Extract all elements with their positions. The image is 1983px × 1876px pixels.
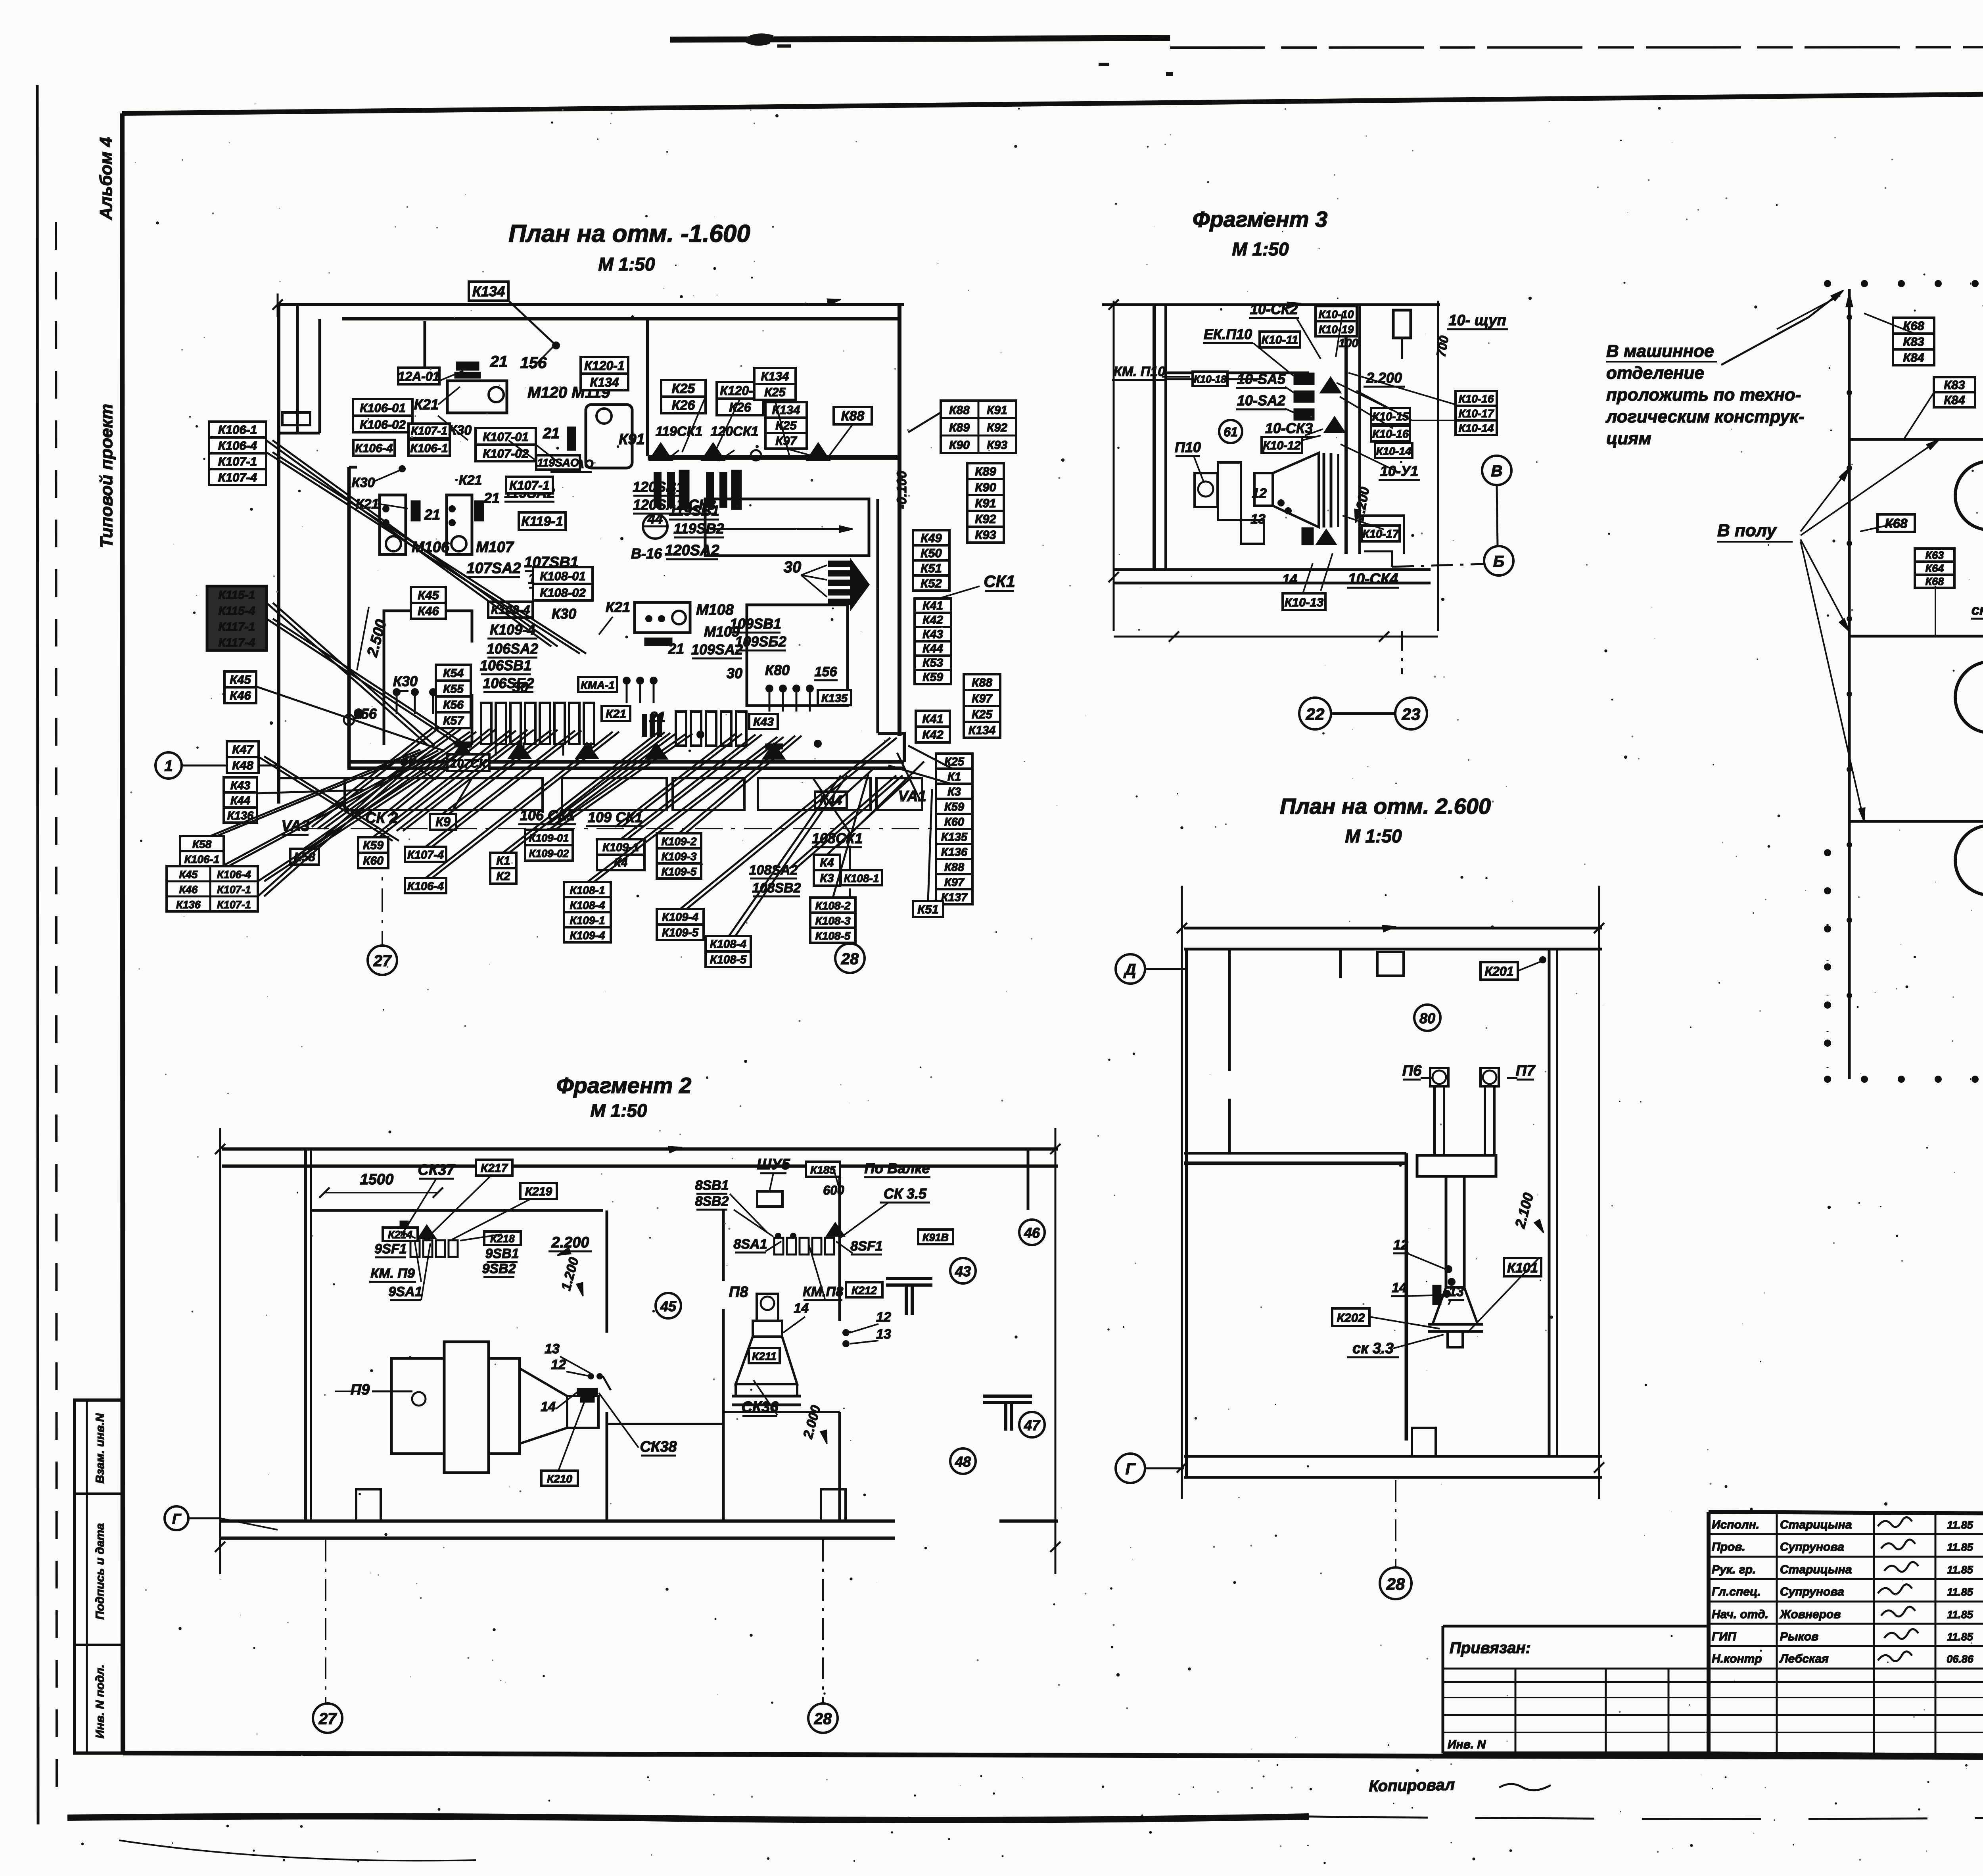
label К120-1/К134: [581, 357, 628, 390]
fragment 2 machine P9: [391, 1342, 598, 1473]
svg-text:Взам. инв.N: Взам. инв.N: [94, 1413, 107, 1483]
plan 0.000 cable tree: [1846, 289, 1983, 1079]
label 109 СК1: [586, 809, 644, 826]
label 2.200: [548, 1234, 592, 1251]
svg-text:Фрагмент 3: Фрагмент 3: [1193, 207, 1327, 232]
outer sheet border top: [670, 38, 1170, 40]
svg-text:П8: П8: [729, 1284, 748, 1301]
svg-text:12: 12: [551, 1357, 566, 1372]
label 10-СК3: [1264, 420, 1314, 437]
fragment 3 leader lines: [1162, 313, 1483, 529]
svg-text:21: 21: [424, 506, 440, 523]
svg-text:Пров.: Пров.: [1712, 1540, 1745, 1554]
svg-text:9SA1: 9SA1: [388, 1284, 422, 1299]
label 10- щуп: [1447, 312, 1508, 329]
label К44: [815, 792, 847, 808]
svg-text:28: 28: [841, 950, 859, 968]
svg-text:14: 14: [541, 1399, 556, 1414]
svg-text:К210: К210: [547, 1473, 572, 1485]
svg-text:8SF1: 8SF1: [850, 1239, 882, 1254]
svg-text:К120-1: К120-1: [584, 359, 625, 373]
label К109-4: [487, 621, 537, 639]
svg-text:К10-12: К10-12: [1263, 439, 1300, 452]
label К185: [806, 1162, 840, 1177]
svg-text:1: 1: [164, 758, 173, 775]
label КМ. П10: [1112, 364, 1167, 380]
label К202: [1332, 1308, 1369, 1326]
svg-text:47: 47: [1024, 1417, 1041, 1433]
svg-text:К108-5: К108-5: [710, 953, 747, 966]
svg-text:К54: К54: [443, 667, 464, 680]
svg-text:К83: К83: [1903, 335, 1924, 349]
svg-text:Старицына: Старицына: [1780, 1518, 1852, 1531]
svg-text:120SA2: 120SA2: [665, 542, 719, 559]
svg-text:30: 30: [784, 558, 802, 576]
label 109SA2: [691, 641, 743, 658]
svg-text:К42: К42: [922, 728, 944, 742]
dot clusters: [344, 677, 822, 748]
label 12: [1393, 1237, 1409, 1253]
svg-text:К10-17: К10-17: [1362, 528, 1400, 541]
svg-text:К68: К68: [1925, 575, 1944, 587]
axis circle 48: [950, 1448, 976, 1474]
svg-text:К51: К51: [917, 902, 939, 916]
svg-text:Лебская: Лебская: [1779, 1652, 1829, 1665]
label 2.200: [1364, 370, 1405, 387]
label КМА-1: [578, 677, 617, 692]
svg-text:К80: К80: [765, 662, 790, 678]
label 14: [1391, 1280, 1407, 1296]
svg-text:К106-02: К106-02: [360, 418, 406, 432]
label КМ.П8: [803, 1284, 843, 1300]
black cable devices row: [650, 443, 829, 510]
svg-text:700: 700: [1434, 334, 1452, 358]
svg-text:К46: К46: [230, 689, 251, 702]
svg-text:К93: К93: [987, 439, 1007, 452]
svg-text:К60: К60: [944, 816, 964, 829]
svg-text:К117-1: К117-1: [219, 620, 255, 633]
svg-text:1500: 1500: [360, 1171, 394, 1188]
svg-text:К46: К46: [418, 604, 439, 618]
label table K88-K93: [941, 401, 1016, 453]
label 120SA2 СК8: [633, 497, 715, 514]
label СК36: [741, 1399, 779, 1416]
svg-text:600: 600: [823, 1183, 844, 1197]
label К108-1: [841, 870, 882, 885]
svg-text:108SA2: 108SA2: [749, 863, 798, 878]
svg-text:К117-4: К117-4: [219, 636, 255, 649]
svg-text:Подпись и дата: Подпись и дата: [94, 1523, 107, 1619]
svg-text:В машинное: В машинное: [1606, 341, 1714, 361]
svg-text:План на отм. -1.600: План на отм. -1.600: [508, 220, 750, 247]
svg-text:К93: К93: [975, 528, 996, 542]
label К63/К64/К68: [1915, 549, 1954, 588]
svg-text:К108-5: К108-5: [815, 930, 851, 942]
svg-text:К68: К68: [1885, 516, 1908, 531]
svg-text:логическим конструк-: логическим конструк-: [1605, 407, 1805, 426]
label К218: [484, 1231, 521, 1245]
label К109-1/К4: [597, 839, 644, 870]
svg-text:К106-4: К106-4: [217, 869, 251, 880]
label К101: [1504, 1258, 1541, 1276]
svg-text:К106-1: К106-1: [410, 442, 448, 455]
label К10-16: [1371, 426, 1410, 441]
svg-text:К43: К43: [753, 715, 774, 729]
label К134/К25/К97: [765, 402, 807, 449]
label СК38: [640, 1439, 677, 1456]
svg-text:План на отм. 2.600: План на отм. 2.600: [1280, 794, 1491, 819]
svg-text:К136: К136: [176, 899, 201, 911]
svg-text:К219: К219: [525, 1185, 552, 1198]
svg-text:2.500: 2.500: [364, 618, 390, 659]
svg-text:К107-01: К107-01: [483, 430, 529, 444]
svg-text:К185: К185: [810, 1164, 836, 1176]
svg-text:П7: П7: [1516, 1063, 1536, 1079]
axis circle Д: [1116, 954, 1145, 984]
label 10-СК4: [1347, 571, 1399, 588]
svg-text:К3: К3: [820, 872, 834, 885]
svg-text:К84: К84: [1944, 393, 1965, 407]
label VA3: [281, 818, 309, 835]
svg-text:Копировал: Копировал: [1369, 1776, 1455, 1795]
label К68/К83/К84: [1893, 318, 1934, 365]
label К43: [749, 714, 778, 729]
svg-text:М 1:50: М 1:50: [590, 1100, 647, 1121]
label К47/К48: [227, 741, 259, 773]
label К68: [1878, 514, 1915, 532]
svg-text:К108-1: К108-1: [570, 884, 605, 896]
svg-text:М107: М107: [476, 539, 514, 556]
receiver linear N2: [1955, 803, 1983, 917]
svg-text:К108-4: К108-4: [570, 899, 605, 911]
label К217: [476, 1160, 512, 1176]
svg-text:К41: К41: [922, 599, 943, 612]
svg-text:В: В: [1491, 462, 1503, 480]
label К10-15: [1371, 408, 1410, 424]
svg-text:ск3: ск3: [1971, 602, 1983, 618]
svg-text:К137: К137: [941, 891, 968, 904]
svg-text:46: 46: [1024, 1225, 1040, 1241]
svg-text:10-СК3: 10-СК3: [1265, 420, 1313, 436]
label 119SAО: [536, 455, 580, 470]
svg-text:К106-4: К106-4: [407, 880, 444, 893]
svg-text:К3: К3: [947, 786, 961, 798]
fragment 2 right niches: [886, 1149, 1032, 1431]
svg-text:К90: К90: [975, 480, 996, 494]
label К25/К1/К3/К59/К60/К135/К136/К88/К97/К137: [936, 754, 972, 904]
svg-text:К55: К55: [443, 683, 464, 696]
label ск 3.3: [1347, 1340, 1399, 1357]
svg-text:К135: К135: [941, 831, 968, 844]
axis circle В: [1482, 456, 1511, 485]
svg-text:В-16: В-16: [631, 545, 662, 562]
svg-text:13: 13: [1250, 512, 1266, 527]
svg-text:10- щуп: 10- щуп: [1448, 312, 1506, 329]
label К10-16/К10-17/К10-14: [1456, 391, 1497, 435]
axis circle Б: [1484, 546, 1513, 575]
svg-text:21: 21: [483, 490, 500, 506]
svg-text:28: 28: [814, 1710, 832, 1728]
svg-text:Г: Г: [1126, 1460, 1136, 1478]
axis circle 1: [155, 752, 182, 779]
label К4/К3: [814, 855, 840, 886]
label К107-1: [408, 424, 450, 438]
label К43/К44/К136: [224, 777, 257, 823]
svg-text:21: 21: [649, 709, 665, 725]
svg-text:109SA2: 109SA2: [691, 641, 743, 658]
svg-text:К90: К90: [949, 439, 970, 452]
label 106 СК1: [518, 807, 576, 824]
label К88/К97/К25/К134: [964, 674, 1000, 738]
label К109-01/К109-02: [525, 830, 573, 861]
svg-text:К10-11: К10-11: [1262, 334, 1298, 347]
svg-text:12: 12: [1393, 1237, 1408, 1253]
svg-text:К1: К1: [496, 854, 510, 867]
svg-text:К30: К30: [393, 673, 418, 689]
svg-text:Супрунова: Супрунова: [1780, 1540, 1844, 1554]
svg-text:отделение: отделение: [1606, 363, 1704, 383]
svg-text:К88: К88: [972, 676, 992, 689]
axis circle 43: [950, 1258, 976, 1283]
label 119SA2: [504, 485, 554, 502]
svg-text:М108: М108: [696, 602, 734, 618]
label 9SВ1: [485, 1246, 519, 1262]
svg-text:К107-02: К107-02: [483, 447, 529, 460]
label К109-4/К109-5: [657, 909, 704, 940]
svg-text:К136: К136: [941, 846, 968, 859]
svg-text:11.85: 11.85: [1947, 1609, 1973, 1621]
label К107-4: [405, 847, 446, 862]
svg-text:К202: К202: [1337, 1311, 1365, 1325]
label СК37: [418, 1162, 455, 1179]
axis circle Г: [165, 1506, 188, 1530]
svg-text:СК1: СК1: [984, 572, 1015, 591]
label К211: [749, 1348, 780, 1363]
leader lines upper area: [438, 397, 816, 466]
svg-text:К108-1: К108-1: [844, 872, 879, 884]
svg-text:К9: К9: [435, 815, 451, 829]
svg-text:К53: К53: [922, 656, 943, 669]
svg-text:К106-4: К106-4: [218, 439, 257, 453]
label 106SB1: [480, 657, 531, 674]
axis circle 28: [808, 1703, 838, 1733]
svg-text:КМ. П10: КМ. П10: [1114, 364, 1165, 379]
svg-text:8SВ1: 8SВ1: [695, 1178, 729, 1193]
svg-text:48: 48: [955, 1454, 971, 1470]
svg-text:К64: К64: [1925, 562, 1944, 574]
svg-text:К91: К91: [987, 404, 1007, 417]
svg-text:М109: М109: [704, 623, 740, 640]
svg-text:К201: К201: [1484, 964, 1513, 978]
axis drops to circles 27 28: [382, 846, 383, 946]
svg-text:К106-4: К106-4: [355, 442, 393, 455]
svg-text:К108-02: К108-02: [540, 586, 586, 600]
label К41/К42: [916, 711, 950, 742]
svg-text:45: 45: [660, 1298, 677, 1314]
svg-text:28: 28: [1386, 1575, 1405, 1593]
label К108-1/К108-4/К109-1/К109-4: [564, 882, 611, 942]
label СК 2: [365, 810, 398, 827]
label ШУ5: [757, 1156, 790, 1173]
label К212: [846, 1282, 882, 1297]
svg-text:43: 43: [955, 1263, 971, 1279]
svg-text:К10-13: К10-13: [1285, 595, 1323, 609]
svg-text:К21: К21: [606, 599, 630, 615]
svg-text:ГИП: ГИП: [1712, 1630, 1737, 1643]
fragment 2 left device row: [400, 1221, 458, 1257]
svg-text:К107-1: К107-1: [217, 884, 251, 896]
svg-text:119СК1: 119СК1: [656, 424, 703, 439]
svg-text:К45: К45: [179, 869, 198, 880]
svg-text:Б: Б: [1493, 553, 1504, 570]
svg-text:27: 27: [373, 952, 392, 970]
svg-text:К106-1: К106-1: [184, 853, 220, 865]
label П8: [729, 1284, 748, 1301]
svg-text:К10-10: К10-10: [1319, 308, 1354, 320]
label К135: [818, 690, 851, 705]
svg-text:По Валке: По Валке: [864, 1160, 930, 1176]
svg-text:61: 61: [1224, 425, 1238, 439]
title block: [1443, 1485, 1983, 1759]
axis circle 28: [835, 944, 865, 973]
svg-text:14: 14: [1392, 1280, 1407, 1295]
hatch block 30: [784, 558, 869, 608]
label П10: [1175, 439, 1201, 456]
label 109SB1: [730, 616, 781, 633]
label К21: [602, 706, 630, 721]
label К58: [290, 849, 319, 865]
svg-text:Н.контр: Н.контр: [1712, 1652, 1762, 1665]
label 13: [1448, 1284, 1464, 1300]
label К1/К2: [490, 853, 516, 884]
label 120SA2: [665, 542, 719, 559]
svg-text:К63: К63: [1925, 549, 1944, 561]
label К106-1/К106-4/К107-1/К107-4: [209, 422, 266, 485]
svg-text:8SA1: 8SA1: [733, 1237, 767, 1252]
svg-text:П9: П9: [351, 1381, 370, 1398]
label 10-SA5: [1236, 371, 1286, 388]
label К9: [430, 814, 456, 830]
svg-text:80: 80: [1419, 1010, 1435, 1026]
svg-text:К59: К59: [922, 671, 943, 684]
svg-text:К115-1: К115-1: [219, 589, 255, 602]
svg-text:10-SA5: 10-SA5: [1237, 371, 1286, 387]
note arrow to corner: [1721, 293, 1840, 365]
svg-text:12: 12: [876, 1310, 891, 1325]
label 106SБ2: [483, 675, 534, 692]
fragment 2 leader lines: [401, 1166, 888, 1471]
svg-text:К58: К58: [192, 838, 212, 850]
svg-text:К108-2: К108-2: [815, 900, 851, 912]
svg-text:12А-01: 12А-01: [398, 369, 440, 384]
svg-text:2.000: 2.000: [800, 1404, 824, 1441]
svg-text:27: 27: [318, 1710, 337, 1728]
svg-text:VA1: VA1: [898, 788, 926, 805]
svg-text:-0.100: -0.100: [894, 471, 909, 509]
label К49/К50/К51/К52: [913, 530, 949, 591]
svg-text:К43: К43: [922, 628, 943, 641]
svg-text:Нач. отд.: Нач. отд.: [1712, 1608, 1768, 1621]
label table K45 K106: [167, 866, 258, 911]
label П6: [1402, 1063, 1422, 1080]
svg-text:К25: К25: [775, 418, 797, 432]
label К106-4: [353, 440, 395, 456]
svg-text:Рук. гр.: Рук. гр.: [1712, 1563, 1756, 1576]
label К10-10/К10-19: [1316, 306, 1357, 336]
svg-text:К106-1: К106-1: [218, 423, 257, 437]
label 108SВ2: [752, 880, 801, 896]
label 8SВ1: [695, 1178, 729, 1194]
fragment 2 flask P8: [732, 1294, 801, 1405]
label К51: [913, 901, 943, 917]
label 107СК: [447, 754, 489, 771]
svg-text:К44: К44: [922, 642, 943, 655]
svg-text:К88: К88: [841, 409, 865, 424]
label 106SA2: [487, 641, 538, 658]
svg-text:К60: К60: [363, 854, 384, 867]
label 119SB2: [673, 520, 724, 537]
svg-text:К26: К26: [729, 400, 751, 414]
axis circle 28: [1380, 1567, 1411, 1599]
label К89/К90/К91/К92/К93: [967, 463, 1004, 543]
axis circle 22: [1299, 698, 1331, 729]
svg-text:К42: К42: [922, 614, 943, 627]
svg-text:К218: К218: [490, 1233, 515, 1245]
svg-text:Супрунова: Супрунова: [1780, 1585, 1844, 1598]
svg-text:120СК1: 120СК1: [710, 424, 758, 439]
svg-text:К109-5: К109-5: [662, 926, 699, 939]
label 10-СК2: [1249, 301, 1299, 318]
label 156: [814, 664, 838, 680]
svg-text:К21: К21: [606, 708, 626, 721]
svg-text:К49: К49: [921, 531, 942, 545]
svg-text:10-SA2: 10-SA2: [1237, 392, 1285, 409]
svg-text:К89: К89: [949, 421, 970, 434]
outer fold dashed line: [56, 222, 57, 1789]
svg-text:2.200: 2.200: [551, 1234, 589, 1251]
label 107SB1: [524, 554, 578, 571]
label 10-У1: [1379, 463, 1420, 480]
label 8SВ2: [695, 1194, 729, 1210]
axis circle 45: [656, 1293, 681, 1318]
svg-text:К88: К88: [949, 404, 970, 417]
svg-text:К97: К97: [972, 692, 993, 705]
svg-text:К10-16: К10-16: [1459, 393, 1494, 405]
axis circle 27: [368, 946, 397, 975]
svg-text:К109-2: К109-2: [662, 835, 697, 848]
svg-text:ск 3.3: ск 3.3: [1352, 1340, 1394, 1357]
svg-text:П10: П10: [1175, 439, 1201, 455]
leader fan from bottom labels to plan: [210, 440, 954, 936]
label К10-11: [1260, 332, 1300, 347]
outer sheet border left: [37, 85, 38, 1824]
svg-text:К2: К2: [496, 870, 510, 883]
label К25/К26: [661, 380, 706, 413]
label 8SA1: [733, 1237, 767, 1253]
svg-text:11.85: 11.85: [1947, 1631, 1973, 1643]
fragment 2 walls: [215, 1128, 1061, 1574]
plan 0.000 dotted boundary: [1824, 280, 1983, 1083]
svg-text:К25: К25: [764, 385, 786, 399]
svg-text:К115-4: К115-4: [219, 604, 255, 618]
label К10-14: [1375, 443, 1412, 458]
svg-text:Г: Г: [172, 1511, 182, 1527]
dim 2.500: [357, 607, 390, 670]
svg-text:2.100: 2.100: [1511, 1191, 1536, 1230]
svg-text:К10-19: К10-19: [1319, 323, 1354, 336]
svg-text:К89: К89: [975, 464, 996, 478]
svg-text:Альбом 4: Альбом 4: [96, 137, 116, 221]
